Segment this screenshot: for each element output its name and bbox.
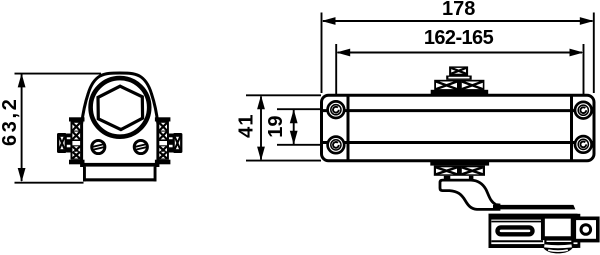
cap box xyxy=(57,133,67,153)
dimension 41 extension top xyxy=(246,94,321,96)
pivot dome (black with white seams) xyxy=(542,244,574,253)
wing cell 3 xyxy=(72,146,80,153)
dimension 178 arrow left xyxy=(322,17,336,25)
dimension 41 arrow up xyxy=(257,95,265,109)
top valve wide box white X panels xyxy=(436,82,457,90)
wing top flange xyxy=(69,117,85,121)
mounting step bar xyxy=(81,163,159,167)
bottom valve leg left xyxy=(444,176,451,179)
top valve small box white X panel xyxy=(451,68,466,74)
top valve base bar xyxy=(431,90,489,95)
top valve assembly xyxy=(431,66,489,94)
screw left xyxy=(92,140,105,153)
top valve step xyxy=(446,76,472,80)
bottom valve base bar xyxy=(430,161,489,166)
dimension 19 line xyxy=(293,110,295,144)
wing cell 1 xyxy=(72,123,80,131)
dimension 19 arrow down xyxy=(290,131,298,145)
mounting plate xyxy=(84,167,155,179)
body vertical line left xyxy=(347,97,350,160)
dimension 162-165 arrow left xyxy=(336,49,350,57)
body outline (arched housing) xyxy=(82,73,158,166)
dimension 41 extension bottom xyxy=(246,160,321,162)
left valve wing xyxy=(57,117,85,164)
dimension 162-165 extension left xyxy=(335,44,337,110)
cap cell xyxy=(59,137,64,149)
bottom valve white X panels xyxy=(436,167,457,174)
bottom valve wide box xyxy=(434,166,485,176)
dimension 162-165 arrow right xyxy=(570,49,584,57)
screw right xyxy=(134,140,147,153)
pinion boss circle xyxy=(91,78,150,137)
rail inner line top xyxy=(491,221,543,223)
dimension 19 arrow up xyxy=(290,109,298,123)
dimension 63,2 arrow up xyxy=(18,73,26,87)
cap stem xyxy=(66,134,70,153)
dimension 19 extension top xyxy=(277,108,336,110)
screw hole top-left xyxy=(328,101,345,118)
rail slot xyxy=(498,227,533,234)
bottom valve assembly xyxy=(430,161,489,179)
dimension 63,2 extension line bottom xyxy=(15,182,84,184)
bottom valve leg right xyxy=(469,176,474,179)
slider block xyxy=(543,217,573,239)
svg-text:41: 41 xyxy=(236,113,258,138)
rail bottom thick band xyxy=(489,244,578,248)
arm flat bar (solid) xyxy=(493,205,575,210)
screw hole top-right xyxy=(575,102,592,119)
dimension 178 extension right xyxy=(593,13,595,94)
wing middle gap xyxy=(72,141,80,145)
dimension 178 arrow right xyxy=(580,17,594,25)
body line upper xyxy=(323,109,594,112)
dimension 162-165 line xyxy=(338,52,583,54)
body vertical line right xyxy=(570,97,573,160)
dimension 41 arrow down xyxy=(257,147,265,161)
svg-text:19: 19 xyxy=(265,115,287,137)
dimension 63,2 extension line top xyxy=(15,73,102,75)
wing cell 4 xyxy=(72,152,80,159)
wing cell 2 xyxy=(72,132,80,140)
slide rail body xyxy=(490,215,579,246)
rail top thick band xyxy=(489,214,578,220)
dimension 178 extension left xyxy=(321,13,323,94)
under-block plate xyxy=(545,240,572,244)
hex spindle xyxy=(98,86,143,129)
body line lower xyxy=(323,141,594,144)
dimension 63,2 line xyxy=(21,75,23,182)
screw hole bottom-right xyxy=(575,136,592,153)
svg-text:178: 178 xyxy=(442,0,475,20)
rail inner line bottom xyxy=(491,240,543,242)
top valve wide box xyxy=(434,80,484,91)
end cap hole xyxy=(581,225,591,235)
dimension 162-165 extension right xyxy=(583,44,585,110)
rail end cap xyxy=(574,218,598,240)
wing bottom flange xyxy=(69,160,85,165)
svg-text:63,2: 63,2 xyxy=(0,97,21,146)
dimension 63,2 arrow down xyxy=(18,168,26,182)
wing column xyxy=(71,122,83,160)
slider block erase xyxy=(545,219,571,237)
svg-text:162-165: 162-165 xyxy=(424,27,494,49)
arm (crank band) xyxy=(440,180,499,209)
screw hole bottom-left xyxy=(328,137,345,154)
top valve small box xyxy=(449,66,468,75)
dimension 178 line xyxy=(323,20,593,22)
closer body xyxy=(322,95,595,161)
dimension 19 extension bottom xyxy=(277,144,336,146)
dimension 41 line xyxy=(260,97,262,160)
right valve wing (mirrored) xyxy=(155,117,183,164)
